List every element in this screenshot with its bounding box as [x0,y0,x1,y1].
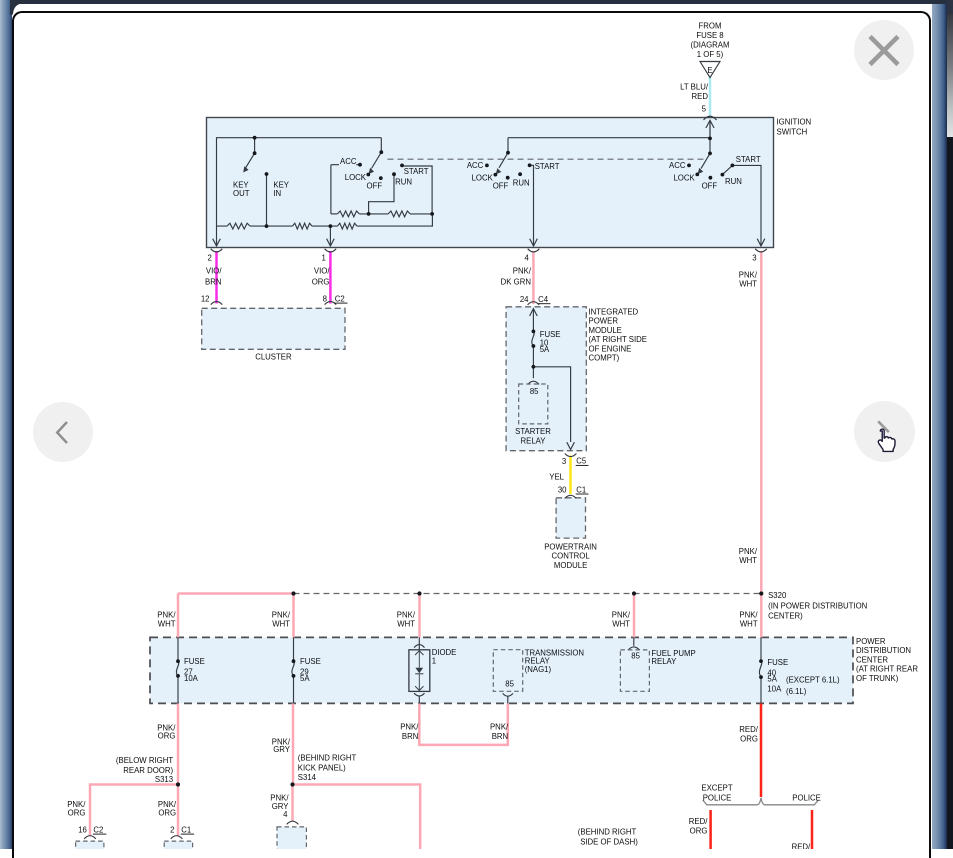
svg-text:START: START [404,167,429,176]
svg-text:CENTER: CENTER [856,655,888,664]
svg-text:START: START [736,155,761,164]
svg-text:YEL: YEL [549,472,564,481]
svg-text:RED/: RED/ [792,842,811,849]
svg-text:S313: S313 [155,775,173,784]
svg-text:BRN: BRN [205,278,221,287]
svg-text:MODULE: MODULE [589,326,622,335]
svg-text:KEY: KEY [233,180,249,189]
svg-text:ACC: ACC [340,157,357,166]
svg-text:FUSE: FUSE [300,657,321,666]
svg-text:30: 30 [558,485,567,494]
svg-text:CLUSTER: CLUSTER [255,353,292,362]
svg-text:12: 12 [201,294,210,303]
svg-text:WHT: WHT [739,279,757,288]
svg-text:ORG: ORG [690,827,708,836]
svg-text:4: 4 [525,253,530,262]
svg-text:E: E [707,66,712,75]
svg-text:PNK/: PNK/ [739,547,758,556]
svg-text:(BELOW RIGHT: (BELOW RIGHT [116,756,173,765]
svg-text:RED/: RED/ [689,817,708,826]
svg-text:ACC: ACC [669,161,686,170]
svg-text:DK GRN: DK GRN [501,278,531,287]
svg-text:RELAY: RELAY [525,656,551,665]
svg-text:85: 85 [530,387,539,396]
svg-text:ORG: ORG [158,809,176,818]
svg-text:CENTER): CENTER) [768,612,803,621]
svg-text:WHT: WHT [272,619,290,628]
svg-text:(BEHIND RIGHT: (BEHIND RIGHT [578,828,637,837]
svg-text:(DIAGRAM: (DIAGRAM [691,41,730,50]
svg-text:LOCK: LOCK [673,173,695,182]
svg-text:POWERTRAIN: POWERTRAIN [544,542,597,551]
svg-text:FUSE 8: FUSE 8 [696,31,723,40]
svg-text:PNK/: PNK/ [157,611,176,620]
svg-text:WHT: WHT [740,619,758,628]
svg-text:IN: IN [273,189,281,198]
svg-text:FUSE: FUSE [184,657,205,666]
svg-text:3: 3 [752,253,756,262]
svg-text:GRY: GRY [273,745,291,754]
svg-text:S314: S314 [298,773,317,782]
svg-text:KEY: KEY [273,180,289,189]
svg-text:(NAG1): (NAG1) [525,665,552,674]
svg-text:1: 1 [321,253,325,262]
svg-text:OUT: OUT [233,189,250,198]
svg-text:POWER: POWER [589,317,619,326]
svg-text:24: 24 [520,295,529,304]
svg-text:POLICE: POLICE [792,793,821,802]
svg-text:2: 2 [208,253,212,262]
svg-text:(EXCEPT 6.1L): (EXCEPT 6.1L) [786,675,840,684]
svg-text:POLICE: POLICE [703,793,732,802]
svg-text:16: 16 [78,825,87,834]
svg-text:ORG: ORG [68,809,86,818]
svg-text:OFF: OFF [367,182,383,191]
svg-text:PNK/: PNK/ [400,722,419,731]
svg-text:REAR DOOR): REAR DOOR) [123,766,173,775]
svg-text:PNK/: PNK/ [272,611,291,620]
svg-text:PNK/: PNK/ [513,267,532,276]
svg-text:3: 3 [562,457,566,466]
svg-text:10A: 10A [767,685,782,694]
svg-text:SWITCH: SWITCH [777,127,808,136]
svg-text:PNK/: PNK/ [397,611,416,620]
svg-text:85: 85 [505,679,514,688]
svg-text:1 OF 5): 1 OF 5) [697,50,724,59]
svg-text:RELAY: RELAY [651,657,677,666]
svg-text:FUSE: FUSE [767,658,788,667]
svg-text:(AT RIGHT REAR: (AT RIGHT REAR [856,665,918,674]
svg-text:FROM: FROM [699,22,722,31]
svg-text:LOCK: LOCK [345,173,367,182]
svg-text:C4: C4 [538,295,549,304]
svg-text:OFF: OFF [702,182,718,191]
svg-text:IGNITION: IGNITION [777,118,812,127]
svg-text:5A: 5A [540,345,550,354]
svg-text:COMPT): COMPT) [589,354,620,363]
svg-text:DISTRIBUTION: DISTRIBUTION [856,646,911,655]
svg-text:VIO/: VIO/ [206,267,222,276]
svg-text:STARTER: STARTER [515,427,551,436]
svg-text:1: 1 [432,657,436,666]
svg-text:(6.1L): (6.1L) [786,687,807,696]
svg-text:ORG: ORG [312,278,330,287]
svg-text:RED/: RED/ [739,725,758,734]
svg-text:WHT: WHT [739,556,757,565]
svg-text:WHT: WHT [612,619,630,628]
svg-text:BRN: BRN [402,732,418,741]
svg-text:(IN POWER DISTRIBUTION: (IN POWER DISTRIBUTION [768,602,867,611]
svg-text:ACC: ACC [467,161,484,170]
svg-text:OFF: OFF [493,181,509,190]
svg-text:C1: C1 [181,825,191,834]
svg-text:POWER: POWER [856,637,886,646]
svg-text:RUN: RUN [395,177,412,186]
svg-text:(BEHIND RIGHT: (BEHIND RIGHT [298,754,357,763]
svg-text:C2: C2 [93,825,103,834]
svg-text:ORG: ORG [740,734,758,743]
svg-text:5A: 5A [300,674,310,683]
svg-text:SIDE OF DASH): SIDE OF DASH) [580,838,638,847]
svg-text:RELAY: RELAY [521,436,547,445]
svg-text:WHT: WHT [158,619,176,628]
svg-text:CONTROL: CONTROL [552,552,591,561]
svg-text:C2: C2 [335,294,345,303]
svg-text:RUN: RUN [725,177,742,186]
svg-text:RED: RED [692,92,709,101]
svg-text:PNK/: PNK/ [739,611,758,620]
svg-text:PNK/: PNK/ [739,271,758,280]
svg-text:LT BLU/: LT BLU/ [680,82,709,91]
svg-text:(AT RIGHT SIDE: (AT RIGHT SIDE [589,335,647,344]
svg-text:BRN: BRN [492,732,508,741]
svg-text:5A: 5A [767,675,777,684]
svg-text:KICK PANEL): KICK PANEL) [298,764,346,773]
svg-text:5: 5 [702,104,707,113]
svg-text:LOCK: LOCK [472,173,494,182]
svg-text:85: 85 [631,652,640,661]
svg-text:C5: C5 [576,457,587,466]
svg-text:S320: S320 [768,591,787,600]
svg-text:RUN: RUN [513,179,530,188]
svg-text:PNK/: PNK/ [490,722,509,731]
svg-text:4: 4 [283,810,288,819]
svg-text:ORG: ORG [158,731,176,740]
svg-text:PNK/: PNK/ [612,611,631,620]
svg-text:START: START [535,162,560,171]
svg-text:VIO/: VIO/ [314,267,330,276]
svg-text:WHT: WHT [397,619,415,628]
svg-text:2: 2 [170,825,174,834]
svg-text:8: 8 [323,294,327,303]
svg-text:EXCEPT: EXCEPT [701,784,732,793]
svg-text:10A: 10A [184,674,199,683]
svg-text:OF ENGINE: OF ENGINE [589,344,632,353]
svg-text:OF TRUNK): OF TRUNK) [856,674,899,683]
svg-text:C1: C1 [576,485,586,494]
svg-text:MODULE: MODULE [554,561,587,570]
svg-text:INTEGRATED: INTEGRATED [589,308,639,317]
